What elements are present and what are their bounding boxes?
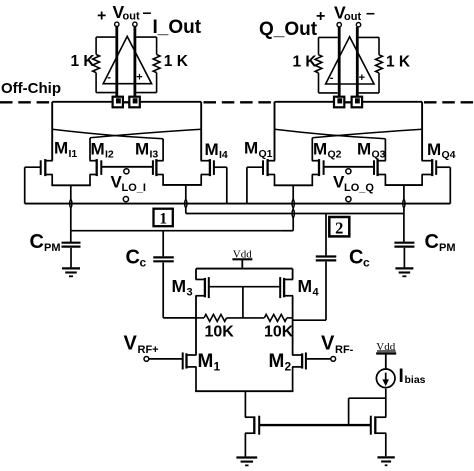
wire M_I1-M_I2 common source bbox=[51, 184, 90, 186]
svg-text:C: C bbox=[425, 231, 439, 253]
resistor R6 10K right bbox=[243, 314, 293, 321]
wire M1-M2 common source bbox=[195, 390, 293, 392]
capacitor C_c left bbox=[153, 231, 196, 318]
wire M_I3 drain up bbox=[162, 139, 164, 161]
label M_I2 bbox=[91, 140, 114, 161]
wire M_I1 gate to LO+ bbox=[25, 167, 41, 203]
wire M_Q3-M_Q4 common source bbox=[385, 184, 423, 186]
wire M_Q2-M_Q3 gates (LO_Q-) bbox=[324, 166, 374, 168]
wire node1 tap from M_Q1/M_Q2 sources bbox=[283, 185, 294, 230]
svg-text:+: + bbox=[359, 72, 365, 84]
resistor R3 1K left feedback (Q) bbox=[315, 37, 338, 93]
capacitor C_PM left bbox=[62, 231, 81, 268]
svg-text:1 K: 1 K bbox=[71, 53, 96, 70]
pad P1 (I- input) bbox=[113, 97, 123, 108]
svg-text:C: C bbox=[349, 247, 363, 269]
svg-text:10K: 10K bbox=[264, 324, 294, 341]
svg-text:-: - bbox=[330, 72, 334, 84]
transistor M6 diode-connected bbox=[371, 416, 387, 435]
label 1K left (I) bbox=[71, 53, 96, 70]
label M_1 bbox=[198, 351, 221, 374]
svg-text:1 K: 1 K bbox=[164, 53, 189, 70]
svg-text:M: M bbox=[427, 140, 441, 159]
svg-text:LO_I: LO_I bbox=[122, 182, 146, 194]
label 10K left bbox=[205, 324, 235, 341]
svg-text:LO_Q: LO_Q bbox=[344, 182, 374, 194]
wire cross-couple M_Q2 to M_Q4 drains bbox=[312, 129, 422, 138]
wire cross-couple M_I1 to M_I3 drains bbox=[52, 129, 163, 138]
terminal V_LO_Q upper bbox=[346, 169, 351, 174]
label +V_out- (I) bbox=[97, 2, 152, 25]
pad P2 (I+ input) bbox=[129, 97, 140, 108]
label C_PM left bbox=[30, 231, 61, 254]
wire M_Q4 source down bbox=[421, 175, 423, 186]
wire M2 source down bbox=[292, 367, 294, 391]
wire M_Q4 gate to LO+ bbox=[436, 167, 450, 203]
svg-text:3: 3 bbox=[187, 287, 193, 299]
svg-text:M: M bbox=[172, 276, 187, 296]
wire M_I4 gate to LO+ bbox=[214, 167, 227, 203]
wire V_RF+ to M1 gate bbox=[149, 358, 183, 360]
svg-text:1 K: 1 K bbox=[293, 54, 318, 71]
ground below M6 bbox=[377, 457, 394, 465]
wire cross-couple M_I2 to M_I4 drains bbox=[90, 129, 201, 138]
wire node1 tap from M_I1/M_I2 sources bbox=[70, 185, 72, 230]
svg-text:V: V bbox=[321, 333, 335, 355]
wire M_I2 source down bbox=[89, 175, 91, 186]
transistor M_I1 bbox=[41, 159, 53, 176]
svg-text:out: out bbox=[344, 11, 361, 23]
label M_I1 bbox=[54, 139, 77, 161]
svg-text:Q1: Q1 bbox=[259, 148, 273, 160]
pad P4 (Q+ input) bbox=[352, 97, 363, 108]
wire M_Q3 source down bbox=[384, 175, 386, 186]
wire V_out+ to pad (I) bbox=[115, 27, 118, 97]
label M_Q1 bbox=[244, 139, 273, 161]
svg-text:M: M bbox=[357, 140, 371, 159]
svg-text:I: I bbox=[399, 366, 404, 387]
label M_3 bbox=[172, 276, 193, 299]
svg-text:–: – bbox=[143, 5, 152, 22]
terminal V_out- (I) bbox=[133, 22, 137, 26]
wire M_Q2 drain up bbox=[311, 138, 313, 161]
svg-text:M: M bbox=[198, 351, 214, 372]
capacitor C_PM right bbox=[394, 243, 414, 268]
wire M_I1 source down bbox=[51, 175, 53, 186]
svg-text:–: – bbox=[366, 5, 375, 22]
transistor M_Q3 bbox=[374, 159, 386, 176]
wire node2 tap from M_I3/M_I4 sources bbox=[185, 185, 187, 214]
label V_RF- bbox=[321, 333, 354, 357]
wire M1 source down bbox=[195, 367, 197, 391]
transistor M_1 bbox=[183, 352, 197, 369]
svg-text:C: C bbox=[126, 247, 140, 269]
transistor M_I4 bbox=[201, 159, 214, 176]
wire M6 drain up to I_bias bbox=[385, 389, 387, 417]
svg-text:I3: I3 bbox=[150, 149, 159, 161]
terminal V_out- (Q) bbox=[356, 23, 360, 27]
label 1K left (Q) bbox=[293, 54, 318, 71]
svg-text:I2: I2 bbox=[105, 149, 114, 161]
svg-text:M: M bbox=[244, 139, 258, 158]
wire gate center tap bbox=[242, 287, 244, 318]
svg-text:+: + bbox=[97, 8, 106, 25]
wire V_out+ to pad (Q) bbox=[338, 27, 341, 97]
capacitor C_c right bbox=[293, 214, 337, 321]
terminal V_RF+ bbox=[144, 357, 149, 362]
svg-text:C: C bbox=[30, 231, 44, 253]
label M_2 bbox=[269, 351, 292, 374]
label M_Q2 bbox=[313, 140, 342, 161]
svg-text:Off-Chip: Off-Chip bbox=[1, 80, 61, 97]
label M_I3 bbox=[135, 140, 158, 161]
svg-text:1 K: 1 K bbox=[386, 54, 411, 71]
pad P3 (Q- input) bbox=[334, 97, 344, 108]
wire M_Q3 drain up bbox=[384, 139, 386, 161]
svg-text:2: 2 bbox=[335, 219, 343, 238]
svg-text:M: M bbox=[205, 140, 219, 159]
power Vdd bias bbox=[376, 341, 396, 369]
resistor R4 1K right feedback (Q) bbox=[359, 37, 383, 93]
svg-text:I4: I4 bbox=[219, 149, 228, 161]
svg-text:c: c bbox=[140, 256, 147, 270]
terminal V_LO_Q lower bbox=[346, 197, 351, 202]
label 10K right bbox=[264, 324, 294, 341]
svg-text:PM: PM bbox=[44, 242, 61, 254]
terminal V_out+ (Q) bbox=[337, 23, 341, 27]
wire Vdd rail M3-M4 bbox=[196, 268, 293, 270]
svg-text:c: c bbox=[363, 256, 370, 270]
label Q_Out bbox=[259, 19, 318, 40]
label +V_out- (Q) bbox=[316, 3, 375, 26]
wire M_I2 drain up bbox=[89, 138, 91, 161]
wire node2 tap from M_Q3/M_Q4 sources bbox=[403, 185, 405, 243]
svg-text:Q4: Q4 bbox=[442, 149, 456, 161]
transistor M_Q2 bbox=[312, 159, 324, 176]
off-chip dashed boundary line bbox=[0, 101, 474, 103]
wire M3 source / M1 drain bbox=[195, 296, 197, 355]
wire V_out- to pad (Q) bbox=[356, 27, 359, 97]
op-amp A1 output buffer (I channel) triangle bbox=[103, 36, 151, 83]
current source I_bias bbox=[376, 369, 395, 388]
ground below C_PM right bbox=[395, 268, 413, 276]
wire M6 gate-drain diode connection bbox=[349, 398, 386, 425]
terminal V_LO_I lower bbox=[123, 197, 128, 202]
wire M4 source / M2 drain bbox=[292, 296, 294, 355]
ground below M5 bbox=[236, 458, 257, 466]
transistor M_I2 bbox=[90, 159, 102, 176]
wire node 2 line bbox=[186, 213, 404, 215]
power Vdd center bbox=[232, 249, 252, 268]
label 1K right (I) bbox=[164, 53, 189, 70]
svg-text:2: 2 bbox=[285, 360, 292, 374]
wire M_I4 source down bbox=[200, 175, 202, 185]
wire LO+ line bbox=[25, 203, 451, 205]
transistor M_2 bbox=[292, 352, 306, 369]
terminal V_LO_I upper bbox=[124, 169, 129, 174]
label C_c right bbox=[349, 247, 370, 270]
wire M_Q1 gate to LO+ bbox=[247, 167, 263, 203]
wire tail tap bbox=[244, 391, 246, 417]
svg-text:M: M bbox=[298, 276, 313, 296]
resistor R5 10K left bbox=[196, 314, 243, 321]
label 1K right (Q) bbox=[386, 54, 411, 71]
wire M_Q1-M_Q2 common source bbox=[274, 184, 313, 186]
transistor M_3 bbox=[196, 269, 209, 299]
transistor M_Q1 bbox=[263, 159, 275, 176]
svg-text:PM: PM bbox=[439, 242, 456, 254]
svg-text:-: - bbox=[107, 72, 111, 84]
terminal V_out+ (I) bbox=[115, 22, 119, 26]
svg-text:RF+: RF+ bbox=[138, 344, 159, 356]
svg-text:1: 1 bbox=[159, 211, 167, 228]
wire node 1 line bbox=[71, 230, 283, 232]
svg-text:M: M bbox=[91, 140, 105, 159]
label I_Out bbox=[153, 17, 202, 38]
wire M3-M4 gates bbox=[209, 286, 280, 288]
label M_I4 bbox=[205, 140, 228, 161]
label C_c left bbox=[126, 247, 147, 270]
svg-text:M: M bbox=[54, 139, 68, 158]
svg-text:out: out bbox=[123, 11, 140, 23]
wire V_out- to pad (I) bbox=[133, 27, 136, 97]
svg-text:bias: bias bbox=[405, 374, 426, 386]
svg-text:Q2: Q2 bbox=[328, 149, 342, 161]
ground below C_PM left bbox=[62, 268, 80, 276]
svg-text:+: + bbox=[136, 72, 142, 84]
wire pad P4 to M_Q4 drain bbox=[362, 102, 422, 161]
svg-text:4: 4 bbox=[313, 287, 320, 299]
label M_Q3 bbox=[357, 140, 386, 161]
svg-text:I_Out: I_Out bbox=[153, 17, 202, 38]
transistor M_I3 bbox=[153, 159, 164, 176]
svg-text:Q3: Q3 bbox=[372, 149, 386, 161]
resistor R2 1K right feedback (I) bbox=[136, 37, 160, 93]
svg-text:M: M bbox=[313, 140, 327, 159]
svg-text:V: V bbox=[124, 333, 138, 355]
label M_Q4 bbox=[427, 140, 456, 161]
label Off-Chip bbox=[1, 80, 61, 97]
node 2 tag box bbox=[329, 217, 349, 238]
resistor R1 1K left feedback (I) bbox=[93, 37, 116, 93]
wire pad P3 to M_Q1 drain bbox=[275, 102, 335, 161]
transistor M_4 bbox=[280, 269, 293, 299]
wire M_I3 source down bbox=[162, 175, 164, 185]
wire M_I3-M_I4 common source bbox=[162, 184, 202, 186]
wire pad P2 to M_I4 drain bbox=[140, 102, 201, 161]
svg-text:M: M bbox=[135, 140, 149, 159]
svg-text:Q_Out: Q_Out bbox=[259, 19, 318, 40]
label C_PM right bbox=[425, 231, 456, 254]
wire cross-couple M_Q1 to M_Q3 drains bbox=[275, 129, 386, 138]
svg-text:1: 1 bbox=[214, 360, 221, 374]
wire M_I2-M_I3 gates (LO_I-) bbox=[101, 166, 153, 168]
wire pad P1 to M_I1 drain bbox=[52, 102, 112, 161]
wire M_Q2 source down bbox=[311, 175, 313, 186]
label I_bias bbox=[399, 366, 426, 387]
node 1 tag box bbox=[154, 209, 173, 228]
wire mirror gate line bbox=[259, 424, 371, 426]
svg-text:+: + bbox=[316, 8, 325, 25]
svg-text:10K: 10K bbox=[205, 324, 235, 341]
label V_LO_Q bbox=[333, 173, 374, 195]
wire M6 source to ground bbox=[385, 433, 387, 456]
wire M_Q1 source down bbox=[274, 175, 276, 186]
svg-text:RF-: RF- bbox=[335, 344, 354, 356]
label V_RF+ bbox=[124, 333, 159, 357]
terminal V_RF- bbox=[331, 357, 336, 362]
svg-text:M: M bbox=[269, 351, 285, 372]
label V_LO_I bbox=[111, 173, 146, 195]
transistor M_Q4 bbox=[422, 159, 437, 176]
wire V_RF- to M2 gate bbox=[306, 358, 331, 360]
transistor M5 tail bbox=[245, 416, 259, 435]
wire M5 source to ground bbox=[244, 433, 246, 456]
label M_4 bbox=[298, 276, 320, 299]
svg-text:I1: I1 bbox=[69, 148, 78, 160]
op-amp A2 output buffer (Q channel) triangle bbox=[326, 37, 374, 84]
